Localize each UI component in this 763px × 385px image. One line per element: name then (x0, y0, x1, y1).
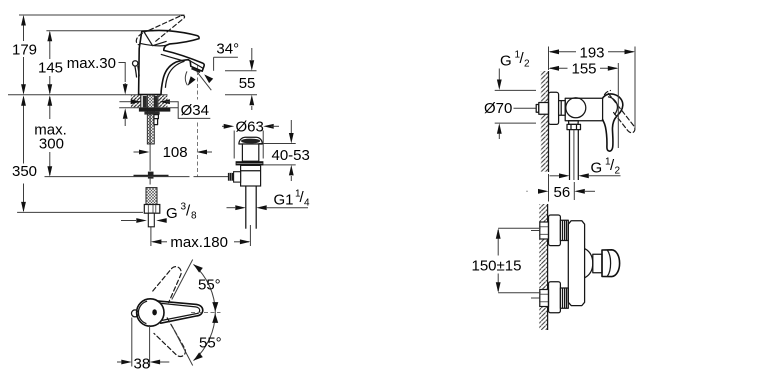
svg-text:Ø70: Ø70 (484, 100, 512, 117)
dimension max.300 (34, 95, 67, 177)
mixer body (plan) (565, 98, 602, 120)
bottom adapter with ribs (560, 288, 568, 308)
countertop hatch left block (131, 95, 141, 107)
handle socket cylinder (593, 254, 602, 272)
outlet boss under body (569, 121, 579, 125)
body blend curve (165, 61, 184, 88)
dimension Ø70 (484, 90, 536, 139)
svg-text:350: 350 (12, 163, 37, 180)
countertop hatch right block (158, 95, 168, 107)
countertop bottom line (119, 107, 178, 109)
adapter ring (559, 101, 566, 116)
svg-text:108: 108 (163, 144, 188, 161)
mixer body (side) (568, 221, 584, 306)
svg-text:2: 2 (615, 166, 621, 177)
svg-text:155: 155 (572, 60, 597, 77)
cartridge ball (566, 98, 586, 118)
handle dome inner arc (138, 301, 147, 323)
wall hatch strip (side view) (539, 204, 547, 330)
spout underside line (190, 61, 203, 69)
handle dome outer circle (137, 299, 164, 326)
threaded shank (147, 95, 154, 144)
dashed lever rotated down 55 (154, 318, 185, 357)
dimension 155 (549, 60, 619, 148)
svg-text:max.180: max.180 (170, 234, 228, 251)
waste upper stem (242, 144, 258, 161)
svg-text:179: 179 (12, 42, 37, 59)
dimension G1 1/4 (227, 189, 311, 211)
dimension 34 degrees label (214, 40, 239, 70)
pop-up waste dome cap (239, 137, 262, 144)
bottom escutcheon (549, 282, 561, 313)
waste flange Ø63 (dark) (236, 161, 264, 165)
dimension 145 (38, 31, 63, 95)
svg-text:G1: G1 (274, 192, 294, 209)
aerator face (dark) (191, 67, 201, 73)
water stream angle lines at spout (185, 71, 213, 90)
bottom union hex nut (540, 290, 549, 307)
mounting nut (144, 112, 159, 115)
pop-up lever port (234, 172, 241, 182)
svg-text:8: 8 (191, 211, 197, 222)
top escutcheon (549, 215, 561, 246)
swivel arc 55-55 (194, 264, 216, 360)
solid lever top view (157, 301, 203, 323)
svg-text:38: 38 (134, 355, 151, 372)
reference line top of lever (145 level) (46, 30, 153, 32)
svg-text:Ø63: Ø63 (236, 118, 264, 135)
dimension Ø63 (222, 118, 279, 158)
reference line top of raised lever (179 level) (19, 14, 185, 16)
countertop top surface line (8, 94, 168, 96)
horizontal rod arm (thick) (134, 175, 169, 177)
waste tailpiece G1 1/4 (245, 186, 247, 229)
inner spout contour (161, 54, 185, 61)
dashed handle pulled position (605, 91, 635, 133)
dimension 55 (225, 48, 257, 110)
svg-text:150±15: 150±15 (472, 257, 522, 274)
spout axis centerline (dashed) (197, 65, 199, 100)
svg-text:193: 193 (580, 45, 605, 62)
dimension 179 (12, 15, 37, 95)
svg-text:55°: 55° (198, 277, 221, 294)
outlet nut (567, 124, 581, 129)
svg-text:40-53: 40-53 (272, 147, 310, 164)
dimension max.180 (151, 225, 251, 251)
mounting studs in deck hole (143, 96, 147, 108)
center arrowheads on arc (212, 302, 218, 312)
shower outlet pipe G1/2 (569, 130, 571, 180)
handle end cap (602, 250, 620, 277)
svg-text:max.30: max.30 (67, 55, 116, 72)
dimension 38 (117, 318, 169, 373)
top adapter with ribs (560, 220, 568, 240)
raised lever (dashed) (136, 15, 184, 44)
radial line upper 55 (172, 260, 193, 300)
cap face ring line (607, 250, 610, 276)
dimension G3/8 (121, 202, 197, 223)
svg-text:55: 55 (239, 75, 256, 92)
dimension 350 (12, 95, 143, 212)
cartridge dome bulge (585, 249, 593, 278)
connection tube end (148, 213, 154, 227)
svg-text:34°: 34° (216, 40, 239, 57)
flexible hose (braided) (146, 188, 157, 205)
svg-text:G: G (500, 53, 512, 70)
lever handle (plan, solid) (603, 94, 623, 151)
label G1/2 outlet (right) (550, 157, 621, 179)
arc end arrowheads (192, 262, 203, 273)
waste lower body (241, 165, 261, 186)
svg-text:4: 4 (304, 198, 310, 209)
horizontal centerline dashed (191, 312, 221, 314)
union nipple centerline (514, 107, 537, 109)
pop-up knob on body (133, 61, 138, 66)
svg-text:Ø34: Ø34 (181, 102, 209, 119)
lever inner contour (161, 303, 200, 320)
small front knob circle (132, 310, 139, 317)
knurled adjuster knob (228, 173, 234, 181)
handle inner line (608, 97, 617, 115)
svg-text:55°: 55° (199, 335, 222, 352)
dimension 40-53 (259, 120, 310, 181)
dimension 150 +/- 15 (472, 228, 541, 292)
radial line lower 55 (172, 326, 193, 366)
wall hatch strip (top view) (541, 71, 549, 172)
dimension max.30 leader with arrows (67, 55, 128, 126)
label G1/2 inlet (top left) (497, 50, 530, 91)
wall face line (548, 71, 550, 172)
svg-text:G: G (166, 205, 178, 222)
svg-text:G: G (591, 160, 603, 177)
svg-text:300: 300 (39, 135, 64, 152)
hose nipple right of shank (154, 115, 159, 125)
union nipple G1/2 (536, 103, 548, 115)
knob facet and seam lines (140, 32, 167, 46)
washer under deck (139, 108, 170, 112)
dimension 193 (549, 45, 636, 130)
svg-text:2: 2 (524, 59, 530, 70)
dimension Ø34 leader (119, 99, 210, 119)
svg-text:56: 56 (554, 184, 571, 201)
svg-text:145: 145 (38, 59, 63, 76)
horizontal rod line to drain (45, 176, 190, 178)
pop-up vertical rod (149, 115, 151, 171)
dark spot on handle (152, 309, 157, 315)
rod clamp block (148, 172, 154, 179)
top union hex nut (540, 222, 549, 239)
hose connection nut G3/8 (144, 205, 160, 214)
dimension 56 (527, 174, 596, 202)
top union centerline stub (531, 230, 540, 232)
bottom union centerline stub (531, 297, 540, 299)
dimension 108 (134, 144, 213, 161)
escutcheon flange (plan) (549, 92, 559, 124)
faucet body and spout outline (139, 31, 205, 95)
wall face line (547, 204, 549, 330)
dashed lever rotated up 55 (153, 267, 181, 303)
